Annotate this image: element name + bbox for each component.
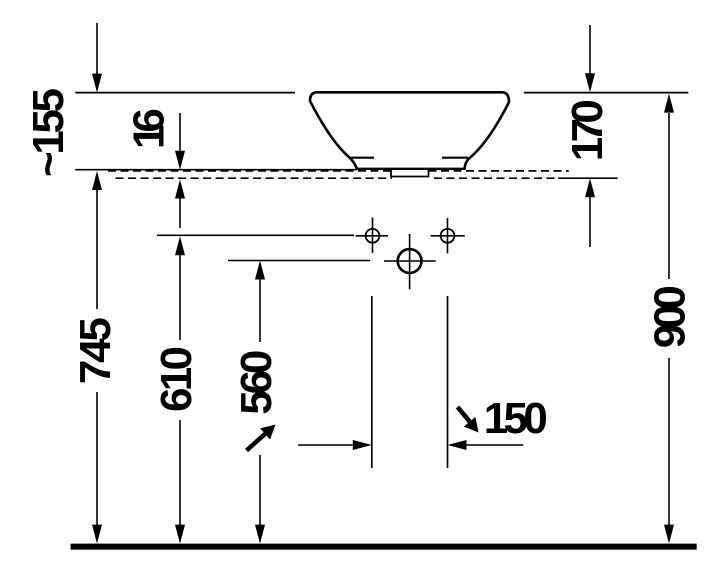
left faucet hole crosshair vertical	[372, 217, 374, 253]
floor line	[71, 544, 697, 550]
drain recess rectangle under basin	[391, 170, 429, 177]
left faucet hole crosshair horizontal	[356, 235, 388, 237]
basin foot ring notch right	[442, 157, 468, 159]
dimension 745/155 shared vertical line with up arrow at countertop	[96, 190, 98, 309]
dimension 745: lower line to floor with down arrow	[96, 392, 98, 525]
basin foot bottom line	[356, 168, 466, 170]
dimension 610: upper line with up arrow at faucet hole level	[179, 255, 181, 340]
dimension 900: lower line to floor with down arrow	[668, 358, 670, 525]
svg-text:745: 745	[71, 317, 120, 384]
dimension ~155: upper arrow line	[96, 23, 98, 74]
basin rim level reference line (right segment)	[524, 92, 689, 94]
svg-text:150: 150	[484, 394, 548, 443]
bold leader arrow for 150 pointing SW	[458, 407, 471, 423]
dimension 560: upper line with up arrow at drain hole level	[259, 280, 261, 343]
left faucet hole circle	[366, 229, 380, 243]
svg-text:16: 16	[124, 108, 173, 149]
hidden countertop edge dashed line (left of drain)	[108, 170, 391, 172]
dimension 610: lower line to floor with down arrow	[179, 420, 181, 525]
dimension 170: upper arrow line	[589, 25, 591, 74]
faucet hole level extension line	[157, 234, 354, 236]
drain hole level extension line	[228, 260, 370, 262]
svg-text:~155: ~155	[24, 88, 73, 177]
dimension 560: lower line to floor with down arrow	[259, 455, 261, 525]
svg-text:900: 900	[646, 285, 695, 348]
left faucet hole center line (lower)	[371, 296, 373, 468]
hidden countertop edge dashed line (right of drain)	[429, 170, 569, 172]
countertop top surface line	[75, 169, 357, 171]
washbasin bowl outline	[310, 92, 509, 168]
right faucet hole crosshair horizontal	[431, 235, 465, 237]
countertop underside dashed line (left of drain)	[116, 177, 392, 179]
dimension 16: upper arrow line	[179, 113, 181, 151]
svg-text:170: 170	[563, 99, 612, 161]
drain hole circle	[398, 249, 422, 273]
dimension 150: left arrow line pointing right	[298, 444, 353, 446]
right faucet hole circle	[441, 229, 455, 243]
drain hole crosshair vertical	[409, 234, 411, 289]
dimension 900: upper line with up arrow at rim level	[668, 113, 670, 279]
drain hole crosshair horizontal	[384, 260, 436, 262]
countertop underside dashed line (right of drain)	[434, 177, 558, 179]
dimension 16: lower arrow line	[179, 198, 181, 228]
dimension 150: right arrow line pointing left	[467, 444, 524, 446]
170 dimension bottom reference line	[558, 177, 618, 179]
right faucet hole crosshair vertical	[447, 218, 449, 253]
svg-text:560: 560	[232, 350, 281, 415]
basin foot ring notch left	[351, 157, 374, 159]
bold leader arrow for 560 pointing NE	[247, 434, 266, 451]
right faucet hole center line (lower)	[447, 296, 449, 468]
dimension 170: lower arrow line	[589, 197, 591, 247]
svg-text:610: 610	[152, 346, 201, 412]
basin rim level reference line (left segment)	[75, 92, 295, 94]
